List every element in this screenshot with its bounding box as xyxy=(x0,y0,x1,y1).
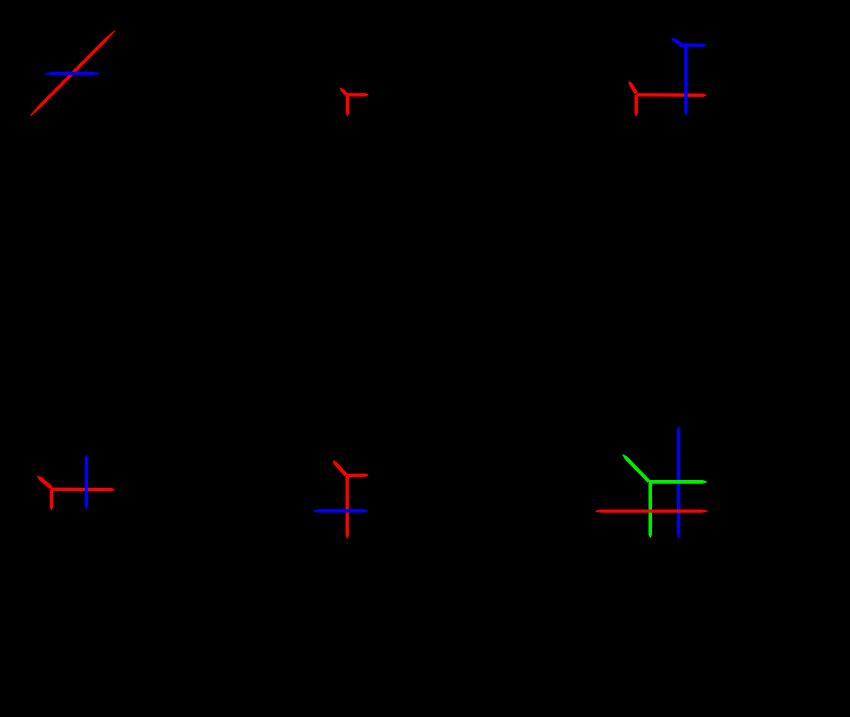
stroke: sketch 2 red vertical segment xyxy=(346,95,349,116)
stroke: sketch 3 red horizontal segment xyxy=(637,93,707,97)
stroke: sketch 2 red diagonal stub xyxy=(340,88,348,96)
stroke: sketch 5 red diagonal stub xyxy=(333,460,348,476)
stroke: sketch 3 red vertical segment xyxy=(635,95,638,116)
stroke: sketch 3 blue horizontal segment xyxy=(679,43,706,47)
stroke: sketch 4 red horizontal segment xyxy=(51,488,115,492)
stroke: sketch 5 red vertical segment xyxy=(346,476,349,538)
stroke: sketch 6 blue vertical line xyxy=(677,426,680,538)
stroke: sketch 3 red diagonal stub xyxy=(629,81,638,94)
stroke: sketch 6 green vertical segment xyxy=(649,483,653,538)
stroke: sketch 6 green diagonal stub xyxy=(622,454,650,483)
stroke: sketch 3 blue diagonal stub xyxy=(671,38,684,48)
stroke: sketch 3 blue vertical segment xyxy=(684,47,687,116)
stroke: sketch 4 red diagonal stub xyxy=(37,476,52,490)
stroke: sketch 4 red vertical segment xyxy=(50,490,53,511)
stroke: sketch 5 red horizontal segment xyxy=(346,474,368,478)
stroke: sketch 1 blue horizontal line xyxy=(45,72,100,75)
stroke: sketch 4 blue vertical line xyxy=(85,455,88,510)
stroke: sketch 1 red diagonal line xyxy=(30,30,115,116)
stroke: sketch 6 red horizontal line xyxy=(595,510,707,513)
stroke: sketch 6 green horizontal segment xyxy=(649,480,707,484)
stroke: sketch 5 blue horizontal line xyxy=(313,509,368,512)
stroke: sketch 2 red horizontal segment xyxy=(347,93,369,96)
